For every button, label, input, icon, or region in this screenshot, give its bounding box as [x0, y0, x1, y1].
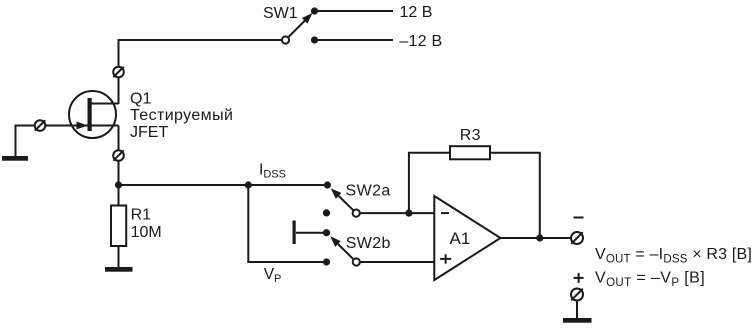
node junction IDSS-VP branch	[245, 181, 252, 188]
svg-text:VP: VP	[264, 266, 282, 285]
node SW1 throw 12V	[311, 7, 318, 14]
switch SW2a pole	[353, 210, 360, 217]
transistor Q1 JFET body	[69, 91, 116, 138]
wire SW2b pole to opamp plus input	[360, 261, 434, 263]
wire R1 top lead	[118, 185, 120, 206]
svg-text:VOUT = –VP [В]: VOUT = –VP [В]	[595, 270, 705, 289]
switch SW2a arm with arrowhead	[331, 188, 354, 210]
wire R1 bottom lead to ground	[118, 246, 120, 267]
terminal gate test point	[35, 120, 46, 131]
svg-text:JFET: JFET	[130, 124, 168, 141]
op-amp A1 triangle	[434, 196, 500, 280]
transistor Q1 source lead	[90, 125, 119, 127]
svg-text:A1: A1	[450, 229, 471, 248]
wire feedback left vertical	[409, 153, 450, 213]
wire lower output terminal to ground	[576, 301, 578, 319]
switch SW1 arm with arrowhead	[288, 13, 312, 37]
wire gate to left ground	[16, 126, 88, 157]
wire SW1 bottom throw to -12V label	[315, 39, 394, 41]
svg-text:R3: R3	[460, 127, 481, 144]
ground R1	[105, 267, 133, 272]
wire SW1 top throw to 12V label	[315, 10, 394, 12]
switch SW2b throw on VP	[323, 258, 330, 265]
transistor Q1 drain lead	[90, 103, 119, 105]
transistor Q1 gate arrowhead	[77, 122, 88, 130]
svg-text:R1: R1	[131, 207, 152, 224]
terminal output minus	[571, 232, 583, 244]
op-amp A1 minus input sign	[441, 212, 449, 214]
switch SW2b arm with arrowhead	[330, 236, 353, 259]
ground output	[563, 318, 592, 323]
svg-text:SW2a: SW2a	[346, 183, 391, 200]
switch SW1 pole	[282, 36, 289, 43]
node junction minus input feedback	[405, 210, 412, 217]
svg-text:12 В: 12 В	[400, 4, 433, 21]
terminal drain test point	[113, 67, 124, 78]
wire SW2b stub line	[296, 232, 327, 234]
label plus polarity output	[574, 273, 584, 283]
ground gate	[2, 156, 28, 161]
label R1 value	[131, 207, 162, 241]
node SW1 throw -12V	[311, 36, 318, 43]
svg-text:VOUT = –IDSS × R3 [В]: VOUT = –IDSS × R3 [В]	[595, 246, 752, 265]
switch SW2a throw on IDSS	[324, 181, 331, 188]
open stub plate for SW2b	[293, 221, 296, 245]
resistor R3	[450, 146, 490, 159]
label Q1 designator block	[130, 90, 233, 141]
node junction source-R1	[115, 181, 122, 188]
op-amp A1 plus input sign	[440, 254, 451, 263]
resistor R1	[111, 206, 126, 247]
wire opamp output to terminal	[501, 237, 572, 239]
wire feedback right over R3 down to output	[490, 153, 540, 238]
terminal output plus	[571, 289, 583, 301]
wire IDSS net horizontal	[119, 184, 328, 186]
svg-text:–12 В: –12 В	[399, 33, 442, 50]
switch SW2a unused throw	[323, 209, 330, 216]
svg-text:10M: 10M	[131, 224, 162, 241]
terminal source test point	[113, 150, 124, 161]
wire SW2a pole to opamp minus input	[360, 212, 434, 214]
transistor Q1 channel bar	[88, 98, 92, 131]
switch SW2b throw on stub	[323, 229, 330, 236]
wire VP branch down and right	[248, 185, 326, 262]
svg-text:IDSS: IDSS	[259, 161, 286, 180]
wire top rail from drain to SW1 pole	[119, 40, 283, 104]
svg-text:Q1: Q1	[130, 90, 151, 107]
node junction output feedback	[536, 234, 543, 241]
svg-text:SW1: SW1	[263, 5, 298, 22]
wire JFET source down to R1 node	[118, 126, 120, 186]
switch SW2b pole	[353, 258, 360, 265]
svg-text:Тестируемый: Тестируемый	[130, 107, 233, 124]
svg-text:SW2b: SW2b	[346, 235, 391, 252]
label minus polarity output	[574, 217, 584, 219]
